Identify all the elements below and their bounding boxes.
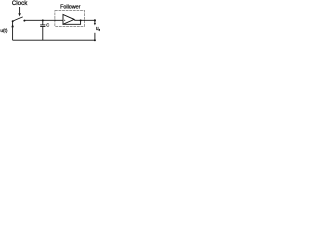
clock arrow [18,7,21,16]
wire output [74,19,95,21]
op-amp U1 [63,15,74,25]
switch right contact [23,20,25,22]
svg-text:C: C [46,23,49,28]
svg-text:u(t): u(t) [0,28,7,33]
node bottom right [94,39,96,41]
switch lever [13,17,23,21]
node box-edge crossing [54,20,56,22]
svg-text:ua: ua [96,26,100,32]
capacitor C [40,20,45,40]
wire feedback [63,20,81,24]
switch left contact [12,20,14,22]
source arrow u(t) [11,21,14,40]
wire output lower [94,33,96,40]
wire top [24,19,63,21]
node capacitor junction [42,19,44,21]
node feedback tap [80,19,82,21]
svg-text:Clock: Clock [12,0,28,7]
node output terminal [94,19,96,21]
output voltage arrow [94,21,96,25]
svg-text:Follower: Follower [60,4,81,10]
op-amp + input mark [64,20,65,21]
wire bottom rail [13,39,95,41]
dashed box [55,11,85,27]
